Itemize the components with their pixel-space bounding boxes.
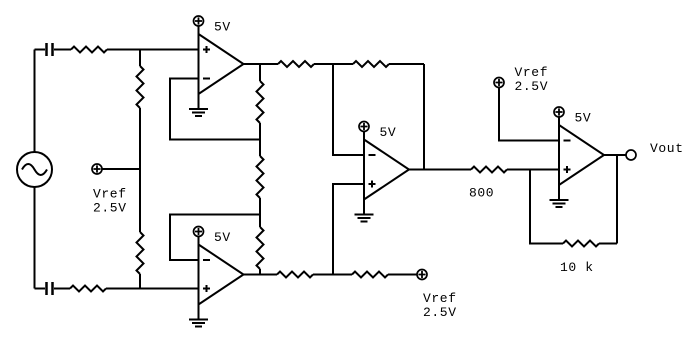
resistor R9 [353, 61, 389, 67]
wire Vref terminal to node [102, 168, 140, 170]
wire U2 feedback: inverting input loop [170, 215, 260, 261]
resistor R12 800 [471, 167, 507, 173]
op-amp U2 [199, 245, 244, 305]
svg-text:5V: 5V [380, 125, 397, 140]
pin + (non-inverting) U3 [369, 181, 376, 188]
resistor R11 [352, 272, 388, 278]
wire U3 non-inverting input down to bottom chain [333, 184, 364, 275]
wire R9 to corner [389, 63, 424, 65]
op-amp U1 [199, 34, 244, 94]
power 5V U3 [359, 122, 369, 132]
wire R2 to U2 non-inverting input [106, 288, 199, 290]
wire R4 to bottom chain [139, 274, 141, 289]
svg-text:10 k: 10 k [560, 260, 594, 275]
resistor R5 [257, 81, 264, 123]
wire R1 to U1 non-inverting input [107, 49, 199, 51]
wire U3 output to 800 [409, 169, 471, 171]
resistor R2 [70, 286, 106, 292]
ground U1 [198, 94, 200, 109]
wire R5 to R6 [259, 123, 261, 156]
svg-text:5V: 5V [214, 20, 231, 35]
Vref terminal top right [494, 78, 504, 88]
wire Vref node to R4 [139, 169, 141, 232]
wire U4 output [604, 154, 626, 156]
svg-text:800: 800 [469, 186, 494, 201]
power 5V U2 [194, 227, 204, 237]
ground U4 [558, 185, 560, 200]
ground U3 [363, 200, 365, 215]
AC source V1 [17, 152, 52, 187]
svg-text:2.5V: 2.5V [423, 305, 457, 320]
svg-text:Vout: Vout [650, 141, 684, 156]
power 5V U4 [554, 107, 564, 117]
wire left vertical source bottom [34, 187, 36, 289]
wire top node to R5 [259, 64, 261, 81]
wire Vref terminal to U4 inverting input [499, 88, 559, 141]
wire 800 to U4 non-inverting input [507, 169, 559, 171]
resistor R10 [277, 272, 313, 278]
wire R3 to Vref node [139, 108, 141, 169]
power 5V U1 [194, 16, 204, 26]
pin - (inverting) U2 [203, 259, 210, 261]
pin - (inverting) U1 [203, 78, 210, 80]
wire U2 output chain [244, 274, 278, 276]
resistor R13 10k [563, 241, 599, 247]
Vref terminal bottom [417, 270, 427, 280]
svg-text:Vref: Vref [423, 291, 457, 306]
wire C2 to R2 [54, 288, 70, 290]
resistor R6 [257, 156, 264, 198]
svg-text:Vref: Vref [515, 65, 549, 80]
wire U1 output chain [244, 63, 279, 65]
pin + (non-inverting) U2 [203, 285, 210, 292]
resistor R1 [71, 47, 107, 53]
resistor R8 [278, 61, 314, 67]
wire bottom-left chain source to C2 [35, 288, 46, 290]
wire C1 to R1 [54, 49, 71, 51]
svg-text:5V: 5V [214, 230, 231, 245]
wire R8 to R9 [314, 63, 353, 65]
resistor R7 [257, 227, 264, 269]
pin + (non-inverting) U1 [203, 46, 210, 53]
pin - (inverting) U4 [564, 140, 571, 142]
capacitor C2 [47, 282, 53, 295]
resistor R4 [137, 232, 144, 274]
ground U2 [198, 305, 200, 320]
svg-text:2.5V: 2.5V [93, 201, 127, 216]
svg-text:5V: 5V [575, 111, 592, 126]
wire U4 positive feedback loop down [530, 170, 563, 244]
op-amp U4 [559, 125, 604, 185]
svg-text:Vref: Vref [93, 187, 127, 202]
wire R10 to R11 [313, 274, 352, 276]
wire corner down to U3 output [423, 64, 425, 170]
capacitor C1 [47, 43, 53, 56]
wire node to U3 inverting input [333, 64, 364, 155]
wire top-left chain from source to C1 [35, 49, 46, 51]
wire top chain to R3 [139, 50, 141, 67]
wire 10k to output [599, 155, 617, 244]
wire R11 to Vref terminal [388, 274, 417, 276]
wire R6 to R7 [259, 198, 261, 227]
svg-text:2.5V: 2.5V [515, 79, 549, 94]
node Vout terminal [626, 150, 636, 160]
Vref terminal left [92, 164, 102, 174]
pin + (non-inverting) U4 [564, 166, 571, 173]
wire R7 to bottom chain [259, 269, 261, 275]
wire U1 feedback: inverting input loop [170, 79, 260, 140]
resistor R3 [137, 66, 144, 108]
pin - (inverting) U3 [369, 154, 376, 156]
op-amp U3 [364, 140, 409, 200]
wire left vertical source top [34, 50, 36, 153]
